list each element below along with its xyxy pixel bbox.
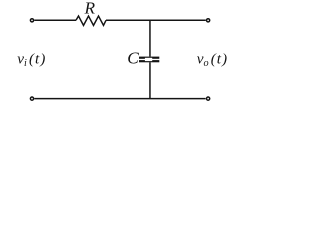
terminal top-left (30, 19, 33, 22)
wire capacitor upper lead (149, 20, 151, 56)
svg-text:vi(t): vi(t) (17, 51, 45, 69)
wire top-left segment (34, 19, 76, 21)
wire bottom (34, 98, 205, 100)
terminal bottom-left (30, 97, 33, 100)
capacitor C plates (139, 57, 159, 63)
resistor R (76, 16, 106, 25)
wire capacitor lower lead (149, 62, 151, 98)
terminal top-right (207, 19, 210, 22)
terminal bottom-right (207, 97, 210, 100)
svg-text:C: C (127, 48, 139, 67)
svg-text:vo(t): vo(t) (197, 51, 227, 69)
wire top-right segment (106, 19, 206, 21)
svg-text:R: R (84, 0, 96, 17)
